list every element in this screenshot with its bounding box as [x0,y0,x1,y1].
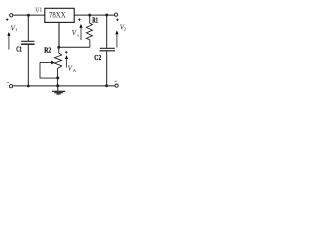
node wiper junction [56,76,59,79]
label plus input [6,19,9,21]
capacitor C1 [27,15,29,41]
svg-text:78XX: 78XX [49,11,66,20]
svg-text:R2: R2 [44,48,52,55]
voltage arrow VA [66,59,68,68]
node C1 bottom junction [27,85,30,88]
output terminal bottom-right [115,84,118,87]
label minus input [7,82,8,84]
svg-text:U1: U1 [35,8,42,14]
wire U1 ground pin down [58,22,60,47]
node R1 R2 junction [57,46,60,49]
wire R1 bottom to R2 top junction [59,46,90,48]
wiper arrow of R2 [40,61,52,63]
voltage arrow V2 [116,33,118,48]
input terminal top-left [10,14,13,17]
capacitor C2 [106,15,108,48]
ground [57,86,59,91]
label plus VA [65,51,68,53]
node R2 bottom junction [56,84,59,87]
resistor R1 [86,15,92,47]
svg-text:C1: C1 [16,46,22,54]
node C1 top junction [27,14,30,17]
wire top rail right [74,14,114,16]
svg-text:C2: C2 [94,54,101,62]
voltage arrow V1 [8,35,10,50]
op-amp U1 regulator box [45,8,74,22]
voltage arrow Vxx [80,28,82,41]
wire wiper loop [40,62,58,78]
node C2 top junction [105,14,108,17]
label plus Vxx [78,19,81,21]
input terminal bottom-left [9,85,12,88]
label minus output [115,80,117,82]
wire top rail [13,14,45,16]
label plus output [116,19,119,21]
svg-text:R1: R1 [92,17,98,24]
output terminal top-right [114,13,117,16]
wire bottom rail [13,85,115,87]
node R1 top junction [88,14,91,17]
resistor R2 potentiometer [55,47,62,86]
node C2 bottom junction [105,84,108,87]
